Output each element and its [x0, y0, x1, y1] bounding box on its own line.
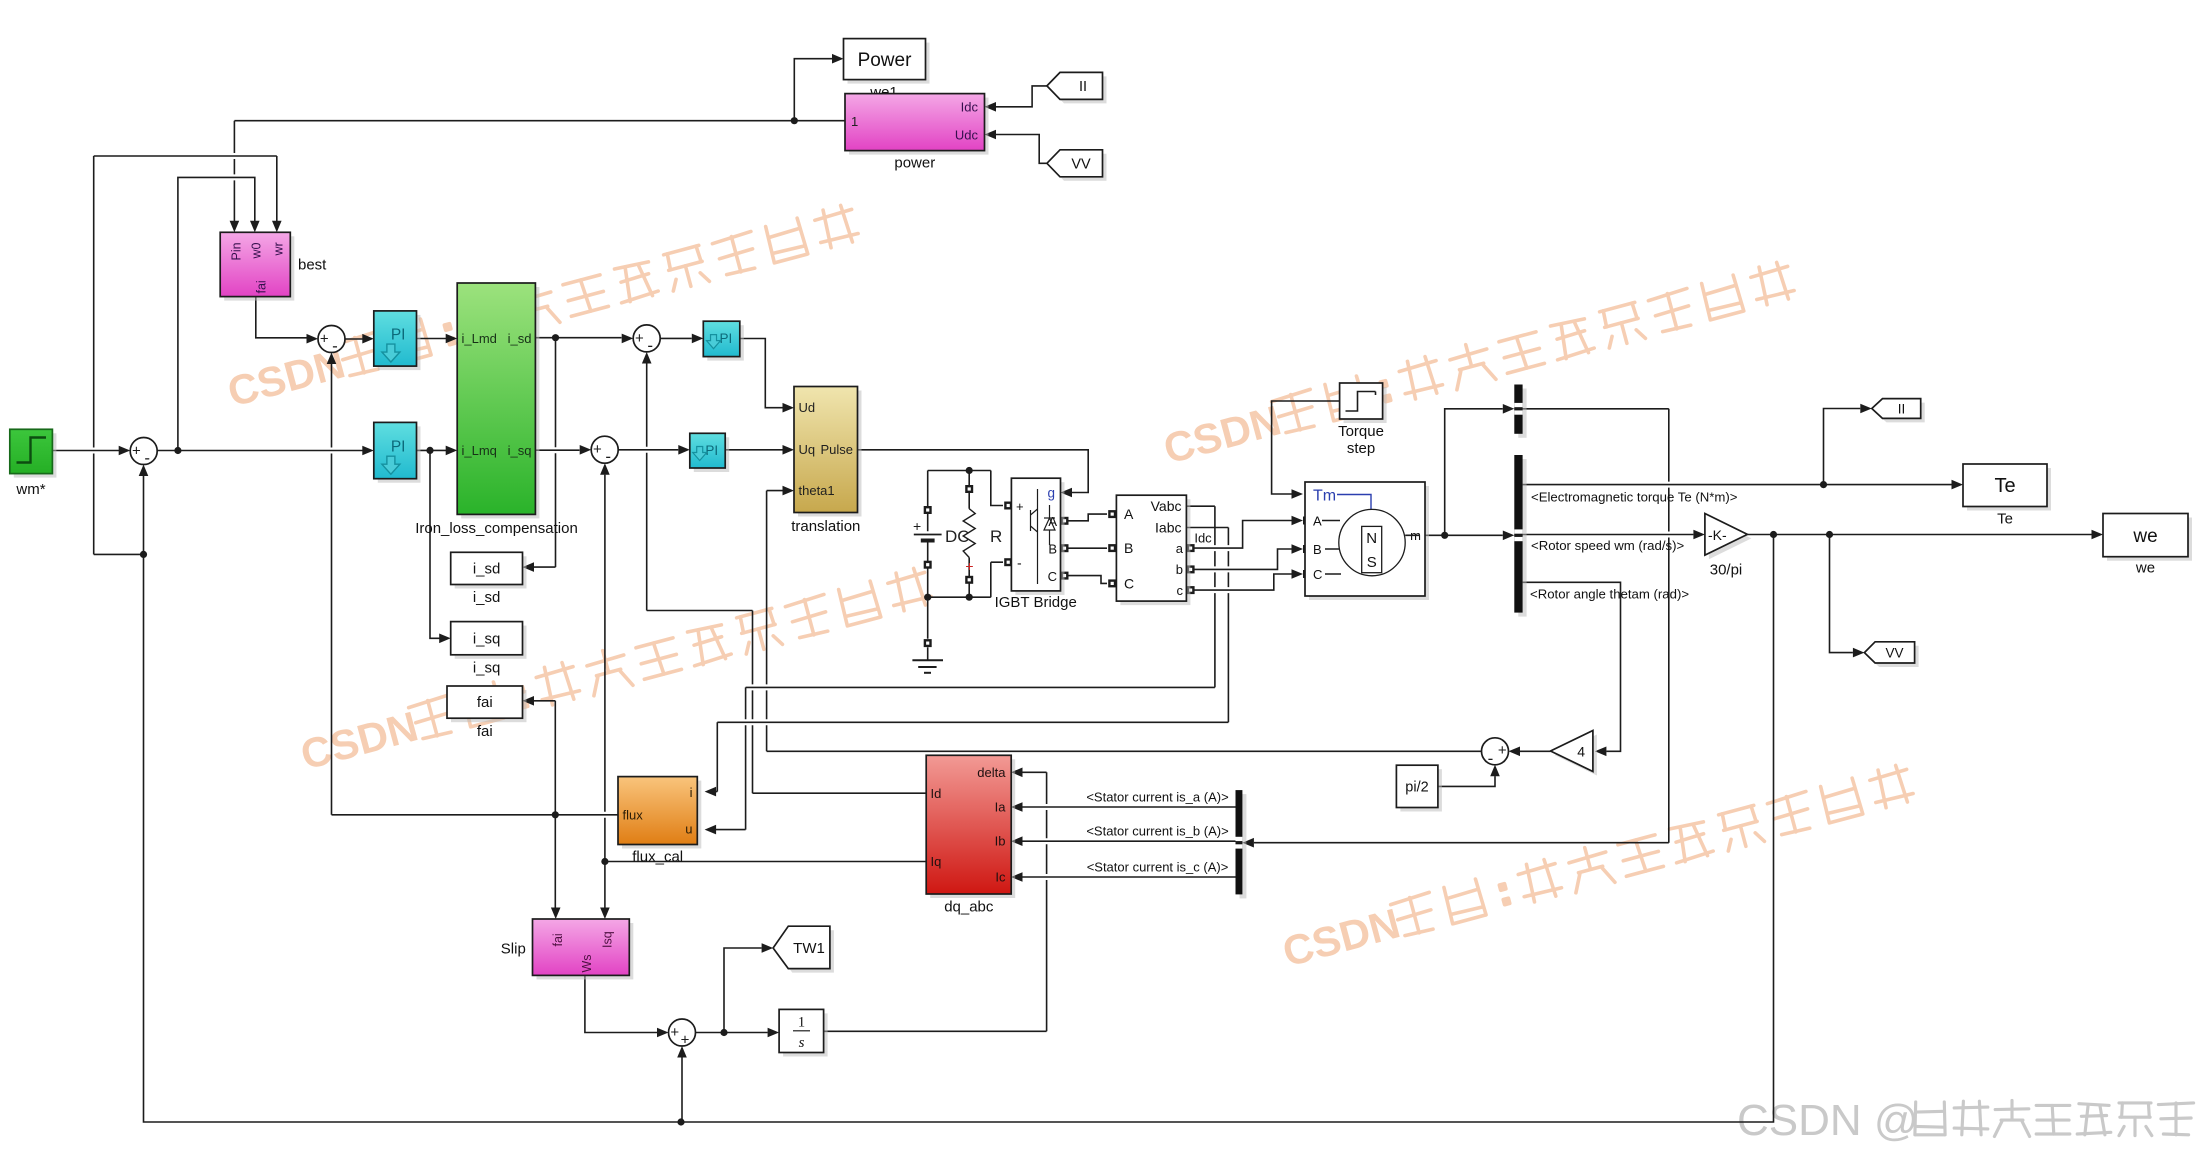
svg-text:Te: Te: [1994, 475, 2015, 497]
measurement block Vabc Iabc Idc: [1120, 499, 1190, 605]
svg-text:Id: Id: [931, 786, 942, 801]
wire branch to Power scope: [794, 59, 832, 121]
svg-text:1: 1: [798, 1015, 805, 1031]
svg-text:S: S: [1367, 554, 1377, 571]
battery DC source: [927, 471, 929, 598]
svg-text:fai: fai: [477, 723, 493, 740]
svg-text:Iq: Iq: [931, 854, 942, 869]
svg-text:flux_cal: flux_cal: [632, 849, 683, 866]
wire integrator output to dq_abc delta: [824, 772, 1047, 1031]
wire S5 output theta1 to translation: [767, 491, 1482, 752]
port pad measurement a: [1187, 544, 1195, 552]
svg-text:u: u: [685, 822, 692, 837]
svg-text:Vabc: Vabc: [1151, 498, 1182, 514]
wire stator current is_c to Ic: [1023, 876, 1236, 878]
svg-text:Ws: Ws: [580, 954, 594, 972]
resistor R: [968, 471, 970, 598]
Goto tag TW1: [777, 930, 834, 972]
svg-text:i_sd: i_sd: [473, 561, 501, 578]
svg-text:g: g: [1048, 486, 1056, 501]
svg-text:i_sq: i_sq: [473, 660, 501, 677]
svg-text:-: -: [605, 447, 611, 466]
svg-text:N: N: [1366, 530, 1377, 547]
port pad measurement c: [1187, 586, 1195, 594]
step source wm*: [14, 433, 57, 477]
subsystem power with ports 1 Idc Udc: [849, 98, 989, 155]
svg-text:delta: delta: [977, 765, 1006, 780]
display block i_sq: [455, 626, 527, 659]
wire S1 output to PI2 with junction: [157, 450, 362, 452]
svg-text:c: c: [1177, 583, 1184, 598]
svg-text:i_sq: i_sq: [473, 631, 501, 648]
svg-text:we: we: [2135, 560, 2155, 577]
wire speed feedback to best wr: [94, 156, 277, 554]
svg-text:b: b: [1176, 562, 1183, 577]
svg-text:Iabc: Iabc: [1155, 520, 1181, 536]
svg-text:+: +: [593, 441, 602, 458]
wire DC bus positive rail: [928, 470, 991, 472]
svg-text:30/pi: 30/pi: [1710, 562, 1743, 579]
svg-text:C: C: [1048, 569, 1057, 584]
port pad resistor top: [965, 485, 973, 493]
sum S4 i_sd error: [633, 325, 660, 352]
PI controller iPI2: [694, 437, 729, 472]
Torque step source: [1344, 387, 1387, 423]
wire iPI1 to Ud: [740, 339, 783, 408]
svg-text:wr: wr: [272, 242, 286, 256]
wire rotor angle to gain 4: [1523, 582, 1621, 751]
wire c to machine C: [1191, 574, 1292, 590]
wire Vabc to flux_cal u: [716, 506, 1215, 829]
wire flux_cal flux output fai net: [332, 814, 619, 816]
svg-text:VV: VV: [1071, 157, 1091, 173]
svg-text:+: +: [635, 330, 644, 347]
port pad measurement B: [1108, 544, 1116, 552]
svg-text:PI: PI: [720, 331, 733, 346]
port pad machine A: [1303, 517, 1311, 525]
wire fai feedback into S2: [327, 353, 337, 365]
svg-text:i_sd: i_sd: [473, 589, 501, 606]
svg-text:A: A: [1124, 506, 1134, 522]
sum S3 i_sq error: [591, 436, 618, 463]
svg-text:+: +: [320, 331, 329, 348]
wire Pulse to IGBT gate g: [858, 450, 1089, 493]
wire Id feedback into S4: [642, 352, 652, 364]
port pad machine C: [1303, 570, 1311, 578]
wire gain 4 output to sum S5: [1520, 750, 1551, 752]
svg-text:B: B: [1313, 542, 1322, 557]
wire S4 output to iPI1: [660, 337, 692, 339]
port pad IGBT plus: [1004, 502, 1012, 510]
port pad IGBT C: [1061, 572, 1069, 580]
port pad IGBT B: [1061, 544, 1069, 552]
wire speed feedback loop bottom bus: [139, 465, 149, 477]
wire fai branch to fai display: [534, 701, 555, 815]
svg-text:+: +: [1016, 499, 1024, 514]
svg-text:<Stator current is_b (A)>: <Stator current is_b (A)>: [1086, 824, 1228, 839]
svg-text:pi/2: pi/2: [1405, 780, 1428, 796]
subsystem translation with ports Ud Uq theta1 Pulse: [798, 391, 862, 517]
svg-text:Iron_loss_compensation: Iron_loss_compensation: [415, 520, 578, 537]
wire DC bus negative rail: [928, 562, 1003, 597]
wire rotor speed to gain 30/pi: [1523, 534, 1694, 536]
svg-text:-: -: [647, 336, 653, 355]
svg-text:s: s: [799, 1035, 805, 1051]
wire Iq output of dq_abc: [605, 861, 926, 863]
wire stator current is_b to Ib: [1023, 840, 1236, 842]
wire Iabc to flux_cal i: [716, 528, 1229, 792]
wire PI1 to i_Lmd: [417, 338, 447, 340]
port pad ground node: [924, 639, 932, 647]
svg-text:-: -: [1017, 555, 1022, 571]
wire bus to stator current selector: [1254, 409, 1669, 843]
wire i_sq output to sum S3: [535, 449, 579, 451]
svg-text:C: C: [1313, 567, 1322, 582]
wire Iq feedback into S3 and Slip Isq: [600, 463, 610, 475]
svg-text:DC: DC: [945, 527, 970, 546]
svg-text:Udc: Udc: [955, 128, 979, 143]
svg-text:II: II: [1079, 79, 1087, 95]
subsystem best with ports Pin w0 wr fai: [224, 236, 294, 300]
gain -K- 30/pi: [1709, 518, 1752, 560]
svg-text:fai: fai: [551, 933, 565, 946]
svg-text:+: +: [1498, 742, 1507, 759]
constant pi/2: [1400, 769, 1442, 811]
svg-text:<Electromagnetic torque Te (N*: <Electromagnetic torque Te (N*m)>: [1531, 490, 1738, 505]
display block i_sd: [455, 556, 527, 588]
Goto tag VV: [1868, 646, 1918, 667]
asynchronous machine block Tm A B C m: [1309, 486, 1429, 600]
svg-text:Ia: Ia: [995, 800, 1007, 815]
svg-text:i_Lmq: i_Lmq: [462, 443, 497, 458]
svg-text:Pulse: Pulse: [820, 442, 853, 457]
svg-text:a: a: [1176, 541, 1184, 556]
port pad battery top: [924, 506, 932, 514]
port pad resistor bottom: [965, 576, 973, 584]
svg-text:Isq: Isq: [601, 931, 615, 948]
scope block we: [2107, 518, 2192, 561]
svg-text:Pin: Pin: [229, 242, 243, 260]
wire S2 output to PI1: [345, 338, 363, 340]
wire stator current is_a to Ia: [1023, 806, 1236, 808]
subsystem Slip with ports fai Isq Ws: [537, 923, 634, 979]
svg-text:w0: w0: [250, 242, 264, 259]
svg-text:R: R: [990, 527, 1002, 546]
svg-text:TW1: TW1: [793, 940, 825, 957]
svg-text:best: best: [298, 257, 327, 274]
svg-text:i: i: [690, 785, 693, 800]
wire power subsystem output net: [234, 120, 845, 122]
wire S6 output to integrator with junction: [696, 1032, 768, 1034]
svg-text:-: -: [332, 337, 338, 356]
svg-text:Power: Power: [858, 50, 913, 71]
wire torque branch to Goto II: [1824, 409, 1861, 485]
svg-text:+: +: [132, 443, 141, 460]
svg-text:-K-: -K-: [1708, 527, 1727, 543]
gain 4: [1555, 735, 1597, 776]
svg-text:Idc: Idc: [961, 100, 979, 115]
wire b to machine B: [1191, 549, 1292, 569]
svg-text:Te: Te: [1997, 511, 2013, 528]
wire From VV to Udc: [996, 135, 1047, 164]
svg-text:we: we: [2132, 526, 2157, 547]
svg-text:II: II: [1898, 402, 1906, 417]
wire a to machine A: [1191, 521, 1292, 549]
port pad measurement b: [1187, 565, 1195, 573]
sum S5 theta: [1482, 738, 1509, 765]
From tag VV: [1051, 154, 1107, 181]
svg-text:4: 4: [1577, 744, 1585, 760]
wire Torque step to Tm: [1272, 401, 1340, 494]
scope block Te: [1967, 468, 2051, 511]
wire S3 output to iPI2: [618, 449, 678, 451]
svg-text:PI: PI: [391, 439, 406, 456]
wire wm* to sum S1: [52, 450, 119, 452]
svg-text:Ib: Ib: [995, 834, 1006, 849]
svg-text:-: -: [144, 449, 150, 468]
svg-text:i_sq: i_sq: [508, 443, 532, 458]
scope block Power: [848, 43, 930, 84]
wire iPI2 to Uq: [725, 449, 782, 451]
wire branch to i_sd display: [534, 338, 556, 567]
Goto tag II: [1876, 403, 1925, 423]
svg-text:Idc: Idc: [1194, 531, 1212, 546]
port pad measurement C: [1108, 579, 1116, 587]
wire i_sd output to sum S4: [535, 337, 621, 339]
svg-text:Uq: Uq: [799, 442, 816, 457]
wire gain output to we scope with junctions: [1747, 534, 2091, 536]
port pad battery bottom: [924, 561, 932, 569]
sum S1 speed error: [130, 438, 157, 465]
From tag II: [1051, 76, 1107, 103]
wire From II to Idc: [996, 86, 1047, 107]
wire IGBT A to measurement A: [1068, 514, 1107, 521]
svg-text:1: 1: [851, 114, 858, 129]
svg-text:A: A: [1313, 514, 1322, 529]
wire speed into S6 bottom: [677, 1046, 687, 1058]
bus selector stator currents: [1240, 794, 1247, 898]
wire best fai to sum S2: [256, 297, 307, 338]
integrator 1/s: [783, 1013, 828, 1056]
svg-text:power: power: [894, 155, 935, 172]
svg-text:wm*: wm*: [15, 481, 45, 498]
svg-text:PI: PI: [705, 443, 718, 458]
display block fai: [451, 690, 527, 722]
wire branch to Goto TW1: [724, 948, 762, 1033]
subsystem dq_abc with ports delta Id Ia Ib Iq Ic: [930, 759, 1015, 898]
svg-text:+: +: [965, 558, 973, 574]
subsystem Iron_loss_compensation: [461, 287, 539, 518]
svg-text:flux: flux: [623, 807, 644, 822]
svg-text:i_sd: i_sd: [508, 331, 532, 346]
svg-text:translation: translation: [791, 518, 860, 535]
svg-text:step: step: [1347, 440, 1375, 457]
svg-text:Tm: Tm: [1313, 488, 1336, 505]
svg-text:i_Lmd: i_Lmd: [462, 331, 497, 346]
wire PI2 to i_Lmq with junction: [417, 449, 447, 451]
svg-text:+: +: [670, 1024, 679, 1041]
svg-text:B: B: [1124, 540, 1133, 556]
wire to IGBT plus terminal: [991, 471, 1003, 506]
svg-text:dq_abc: dq_abc: [944, 899, 994, 916]
IGBT Bridge block with ports g + - A B C: [1015, 482, 1064, 595]
svg-text:Slip: Slip: [501, 941, 526, 958]
port pad IGBT A: [1061, 517, 1069, 525]
PI controller iPI1: [707, 325, 744, 360]
bus selector main: [1518, 459, 1526, 617]
sum S2 fai error: [318, 326, 345, 353]
bus selector small: [1518, 389, 1526, 438]
svg-text:CSDN @: CSDN @: [1737, 1096, 1919, 1145]
PI controller PI2: [378, 426, 421, 482]
svg-text:Torque: Torque: [1338, 423, 1384, 440]
wire power output to best Pin: [233, 121, 235, 221]
svg-text:Ud: Ud: [799, 400, 816, 415]
svg-text:+: +: [681, 1031, 690, 1048]
svg-text:IGBT Bridge: IGBT Bridge: [995, 594, 1077, 611]
wire Slip Ws to sum S6: [585, 975, 657, 1032]
svg-text:fai: fai: [254, 280, 268, 293]
svg-text:+: +: [913, 518, 921, 534]
wire speed reference to best w0: [178, 177, 255, 450]
wire branch to i_sq display: [430, 450, 440, 638]
svg-text:<Rotor angle thetam (rad)>: <Rotor angle thetam (rad)>: [1530, 587, 1689, 602]
sum S6 Ws plus wm: [669, 1019, 696, 1046]
wire speed branch to Goto VV: [1830, 535, 1853, 653]
svg-text:fai: fai: [477, 694, 493, 711]
port pad IGBT minus: [1004, 558, 1012, 566]
port pad measurement A: [1108, 510, 1116, 518]
svg-text:<Rotor speed wm (rad/s)>: <Rotor speed wm (rad/s)>: [1531, 538, 1684, 553]
wire electromagnetic torque to Te scope: [1523, 484, 1952, 486]
wire m branch to small bus selector: [1445, 409, 1503, 536]
subsystem flux_cal with ports flux i u: [622, 781, 701, 849]
wire IGBT B to measurement B: [1068, 547, 1107, 549]
svg-text:-: -: [1488, 749, 1494, 768]
wire machine m to main bus selector with junction: [1420, 534, 1503, 536]
port pad machine B: [1303, 545, 1311, 553]
svg-text:PI: PI: [391, 327, 406, 344]
PI controller PI1: [378, 315, 421, 370]
wire fai branch to Slip fai: [554, 815, 556, 908]
svg-text:Ic: Ic: [995, 870, 1006, 885]
wire pi/2 to sum S5: [1438, 776, 1495, 786]
svg-text:<Stator current is_c (A)>: <Stator current is_c (A)>: [1087, 860, 1229, 875]
svg-text:VV: VV: [1885, 646, 1903, 661]
svg-text:<Stator current is_a (A)>: <Stator current is_a (A)>: [1086, 790, 1228, 805]
ground: [927, 597, 929, 660]
svg-text:theta1: theta1: [799, 483, 835, 498]
wire IGBT C to measurement C: [1068, 576, 1107, 584]
svg-text:C: C: [1124, 576, 1134, 592]
